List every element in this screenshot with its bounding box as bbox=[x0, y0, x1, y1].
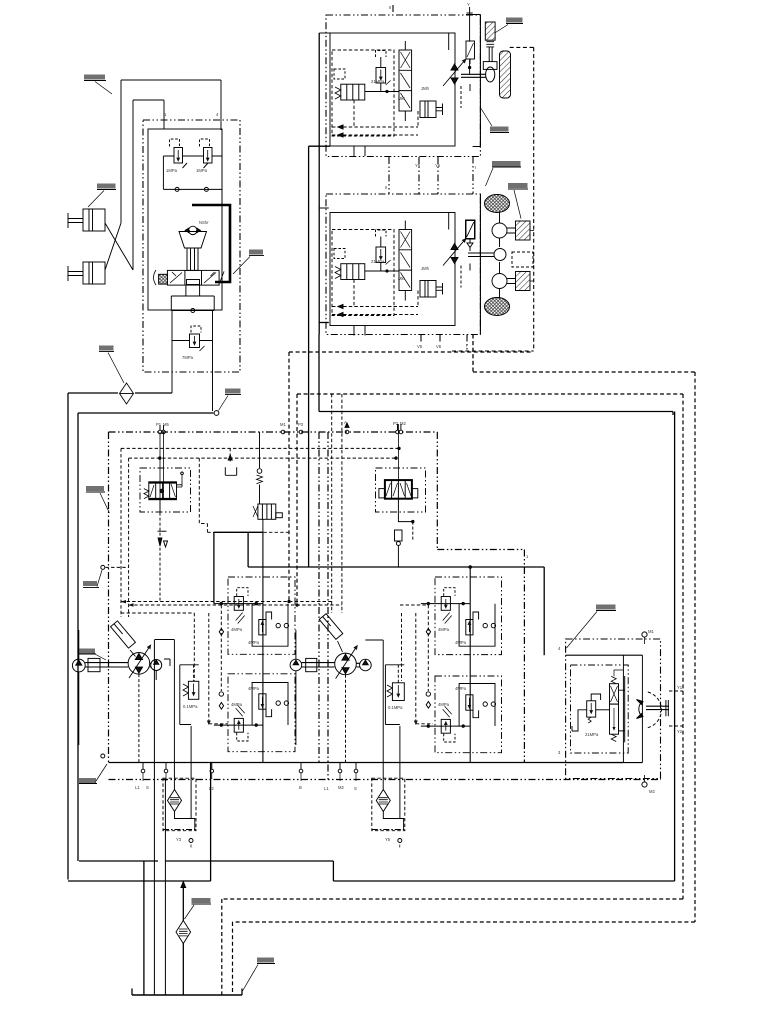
svg-text:3: 3 bbox=[558, 750, 561, 755]
svg-text:4: 4 bbox=[558, 646, 561, 651]
svg-text:M5: M5 bbox=[163, 422, 169, 427]
svg-text:Y5: Y5 bbox=[385, 837, 391, 842]
svg-text:Y5: Y5 bbox=[415, 163, 421, 168]
svg-text:JMh: JMh bbox=[421, 86, 430, 91]
svg-text:S: S bbox=[146, 785, 149, 790]
svg-text:Y3: Y3 bbox=[176, 837, 182, 842]
svg-text:M1: M1 bbox=[280, 422, 286, 427]
svg-text:I: I bbox=[466, 343, 467, 348]
svg-text:M2: M2 bbox=[649, 789, 655, 794]
svg-text:0.1MPa: 0.1MPa bbox=[183, 704, 198, 709]
svg-text:21MPa: 21MPa bbox=[371, 259, 385, 264]
svg-text:S: S bbox=[354, 786, 357, 791]
svg-text:21MPa: 21MPa bbox=[585, 732, 599, 737]
svg-text:L2: L2 bbox=[209, 786, 214, 791]
svg-text:4MPa: 4MPa bbox=[248, 686, 260, 691]
svg-text:P3: P3 bbox=[298, 422, 304, 427]
svg-text:Y6: Y6 bbox=[435, 163, 441, 168]
svg-text:Y: Y bbox=[467, 2, 470, 7]
svg-text:1MPa: 1MPa bbox=[166, 168, 178, 173]
svg-text:Y2: Y2 bbox=[677, 729, 683, 734]
svg-text:II: II bbox=[385, 185, 387, 190]
svg-text:P2: P2 bbox=[393, 421, 399, 426]
svg-text:L1: L1 bbox=[324, 786, 329, 791]
svg-text:II: II bbox=[389, 5, 391, 10]
svg-text:A: A bbox=[344, 420, 347, 425]
svg-text:Mkr: Mkr bbox=[398, 276, 406, 281]
svg-text:4MPa: 4MPa bbox=[455, 640, 467, 645]
svg-text:4MPa: 4MPa bbox=[438, 627, 450, 632]
svg-text:1: 1 bbox=[164, 112, 167, 117]
svg-text:4MPa: 4MPa bbox=[248, 640, 260, 645]
svg-text:0.1MPa: 0.1MPa bbox=[388, 705, 403, 710]
svg-text:NShr: NShr bbox=[199, 220, 209, 225]
svg-text:Mkr: Mkr bbox=[398, 96, 406, 101]
svg-text:I: I bbox=[475, 165, 476, 170]
svg-text:V6: V6 bbox=[436, 344, 442, 349]
svg-text:7MPa: 7MPa bbox=[182, 355, 194, 360]
svg-text:1MPa: 1MPa bbox=[196, 168, 208, 173]
svg-text:L1: L1 bbox=[135, 785, 140, 790]
svg-text:4MPa: 4MPa bbox=[231, 627, 243, 632]
svg-text:21MPa: 21MPa bbox=[371, 79, 385, 84]
svg-text:4: 4 bbox=[216, 112, 219, 117]
svg-text:V5: V5 bbox=[417, 344, 423, 349]
svg-text:4MPa: 4MPa bbox=[455, 686, 467, 691]
svg-text:1: 1 bbox=[526, 554, 529, 559]
svg-text:4MPa: 4MPa bbox=[231, 702, 243, 707]
svg-text:Y1: Y1 bbox=[677, 685, 683, 690]
svg-text:JMh: JMh bbox=[421, 266, 430, 271]
svg-text:M2: M2 bbox=[400, 421, 406, 426]
svg-text:4MPa: 4MPa bbox=[438, 702, 450, 707]
svg-text:M2: M2 bbox=[338, 785, 344, 790]
svg-text:P1: P1 bbox=[156, 422, 162, 427]
svg-text:M1: M1 bbox=[648, 629, 654, 634]
svg-text:B: B bbox=[299, 785, 302, 790]
